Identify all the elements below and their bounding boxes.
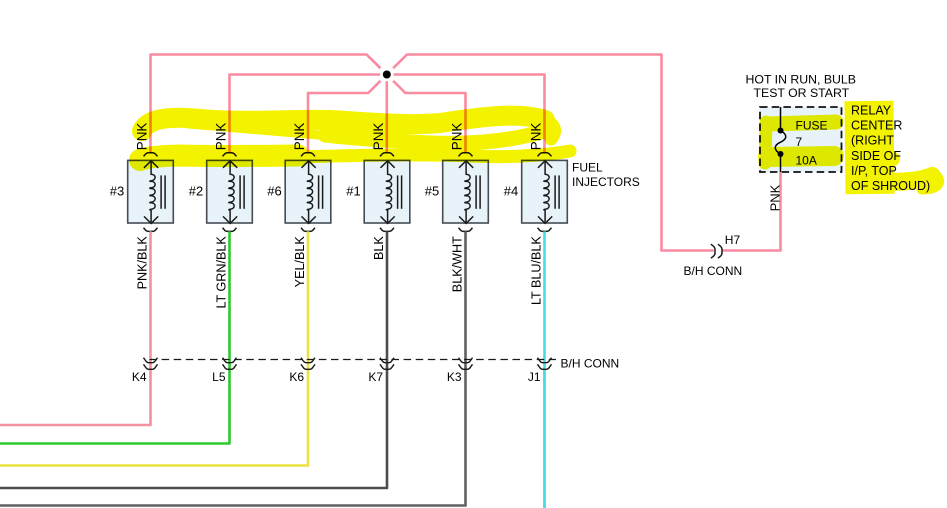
B/H connector K7 halves — [380, 358, 394, 363]
wire PNK/BLK below B/H connector routed to left edge — [0, 368, 151, 426]
wire BLK/WHT below B/H connector routed to left edge — [0, 368, 466, 506]
connector H7 halves — [711, 244, 715, 258]
injector #1 arrowhead down — [381, 216, 395, 223]
injector #3 arrowhead down — [144, 216, 158, 223]
injector #3 bottom connector half — [144, 228, 158, 232]
svg-text:K7: K7 — [368, 370, 383, 384]
B/H connector J1 halves — [538, 358, 552, 363]
highlighter stroke over PNK wires (top sweep) — [142, 116, 545, 131]
B/H connector K6 halves — [301, 358, 315, 363]
wire PNK bus from splice to fuse 7 and H7 connector — [387, 55, 714, 251]
fuel injector #6 box — [285, 160, 331, 223]
wire LT BLU/BLK below B/H connector to bottom edge — [543, 368, 546, 508]
injector #3 arrowhead up — [144, 161, 158, 168]
injector #2 top connector half — [223, 153, 237, 157]
injector #6 bottom connector half — [301, 228, 315, 232]
injector #6 arrowhead up — [302, 161, 316, 168]
svg-text:PNK: PNK — [767, 184, 782, 211]
svg-text:#3: #3 — [110, 183, 124, 198]
svg-text:#4: #4 — [504, 183, 518, 198]
svg-text:K6: K6 — [289, 370, 304, 384]
fuel injector #4 box — [522, 160, 568, 223]
injector #4 arrowhead up — [538, 161, 552, 168]
highlighter stroke right end curl — [545, 121, 555, 139]
svg-text:#1: #1 — [346, 183, 360, 198]
svg-text:BLK: BLK — [372, 236, 386, 260]
fuel injector #1 box — [364, 160, 410, 223]
injector #4 top connector half — [538, 153, 552, 157]
injector #1 core lines — [397, 175, 399, 208]
relay center dashed box — [760, 107, 842, 172]
highlighter stroke over RELAY CENTER text column — [869, 101, 870, 194]
injector #2 arrowhead down — [223, 216, 237, 223]
highlighter stroke over injector box tops (bottom sweep left) — [140, 156, 298, 161]
B/H CONN dashed bulkhead line — [150, 359, 557, 361]
fuel injector #2 box — [207, 160, 253, 223]
injector #3 top connector half — [144, 153, 158, 157]
injector #1 arrowhead up — [381, 161, 395, 168]
svg-text:LT GRN/BLK: LT GRN/BLK — [214, 236, 228, 309]
injector #2 coil winding — [229, 161, 234, 222]
injector #4 coil winding — [544, 161, 549, 222]
highlighter stroke over FUSE label — [768, 122, 836, 124]
wire YEL/BLK below B/H connector routed to left edge — [0, 368, 308, 466]
injector #4 arrowhead down — [538, 216, 552, 223]
injector #6 top connector half — [301, 153, 315, 157]
injector #1 coil winding — [386, 161, 391, 222]
injector #5 coil winding — [465, 161, 470, 222]
highlighter stroke over injector box tops (bottom sweep right) — [300, 151, 570, 157]
injector #2 bottom connector half — [223, 228, 237, 232]
svg-text:#2: #2 — [189, 183, 203, 198]
svg-text:FUEL: FUEL — [572, 161, 603, 175]
svg-text:YEL/BLK: YEL/BLK — [293, 236, 307, 288]
svg-text:J1: J1 — [528, 370, 541, 384]
injector #4 core lines — [554, 175, 556, 208]
svg-text:HOT IN RUN, BULB: HOT IN RUN, BULB — [746, 72, 856, 86]
svg-text:BLK/WHT: BLK/WHT — [450, 236, 464, 292]
wire PNK bus from injector #3 to splice — [151, 55, 387, 153]
wire YEL/BLK from injector #6 to B/H connector K6 — [307, 231, 310, 369]
highlighter stroke left edge of fuse box — [765, 122, 766, 163]
wire LT GRN/BLK below B/H connector routed to left edge — [0, 368, 230, 444]
injector #5 arrowhead down — [459, 216, 473, 223]
wire PNK from fuse down to H7 — [722, 172, 781, 251]
svg-text:PNK/BLK: PNK/BLK — [135, 236, 149, 290]
highlighter stroke over PNK wires (middle return sweep right) — [325, 130, 548, 143]
wire PNK/BLK from injector #3 to B/H connector K4 — [149, 231, 152, 369]
injector #5 bottom connector half — [459, 228, 473, 232]
svg-text:INJECTORS: INJECTORS — [572, 175, 640, 189]
svg-text:TEST OR START: TEST OR START — [754, 86, 850, 100]
svg-text:#6: #6 — [267, 183, 281, 198]
fuse 7 element — [780, 107, 782, 130]
injector #5 core lines — [475, 175, 477, 208]
injector #2 core lines — [239, 175, 241, 208]
wire PNK bus from injector #2 to splice — [230, 75, 387, 153]
wire PNK bus from splice to injector #5 — [387, 75, 466, 153]
B/H connector K3 halves — [459, 358, 473, 363]
injector #2 arrowhead up — [223, 161, 237, 168]
injector #3 core lines — [160, 175, 162, 208]
svg-text:K4: K4 — [132, 370, 147, 384]
svg-text:H7: H7 — [725, 233, 741, 247]
svg-text:B/H CONN: B/H CONN — [561, 356, 620, 370]
fuel injector #3 box — [128, 160, 174, 223]
injector #3 coil winding — [150, 161, 155, 222]
injector #1 top connector half — [380, 153, 394, 157]
injector #6 coil winding — [307, 161, 312, 222]
highlighter stroke over 10A label — [768, 156, 834, 157]
injector #1 bottom connector half — [380, 228, 394, 232]
wire PNK bus from injector #6 to splice — [308, 75, 387, 153]
injector #5 arrowhead up — [459, 161, 473, 168]
injector #6 core lines — [318, 175, 320, 208]
wire BLK below B/H connector routed to left edge — [0, 368, 387, 489]
wire PNK from splice down to injector #1 — [385, 75, 388, 153]
fuel injector #5 box — [443, 160, 489, 223]
wire BLK from injector #1 to B/H connector K7 — [386, 231, 389, 369]
wire LT BLU/BLK from injector #4 to B/H connector J1 — [543, 231, 546, 508]
highlighter stroke over OF SHROUD line with curl — [880, 176, 932, 182]
B/H connector K4 halves — [144, 358, 158, 363]
injector #5 top connector half — [459, 153, 473, 157]
wire LT GRN/BLK from injector #2 to B/H connector L5 — [228, 231, 231, 369]
svg-text:K3: K3 — [447, 370, 462, 384]
wire PNK bus from splice to injector #4 — [387, 75, 545, 153]
svg-text:L5: L5 — [212, 370, 226, 384]
svg-text:#5: #5 — [425, 183, 439, 198]
svg-text:LT BLU/BLK: LT BLU/BLK — [529, 236, 543, 305]
wire BLK/WHT from injector #5 to B/H connector K3 — [464, 231, 467, 369]
highlighter stroke over PNK wires (middle return sweep left) — [188, 124, 332, 136]
injector #4 bottom connector half — [538, 228, 552, 232]
B/H connector L5 halves — [223, 358, 237, 363]
injector #6 arrowhead down — [302, 216, 316, 223]
splice node (white gap ring + solder dot) — [380, 68, 393, 81]
svg-text:B/H CONN: B/H CONN — [684, 264, 743, 278]
